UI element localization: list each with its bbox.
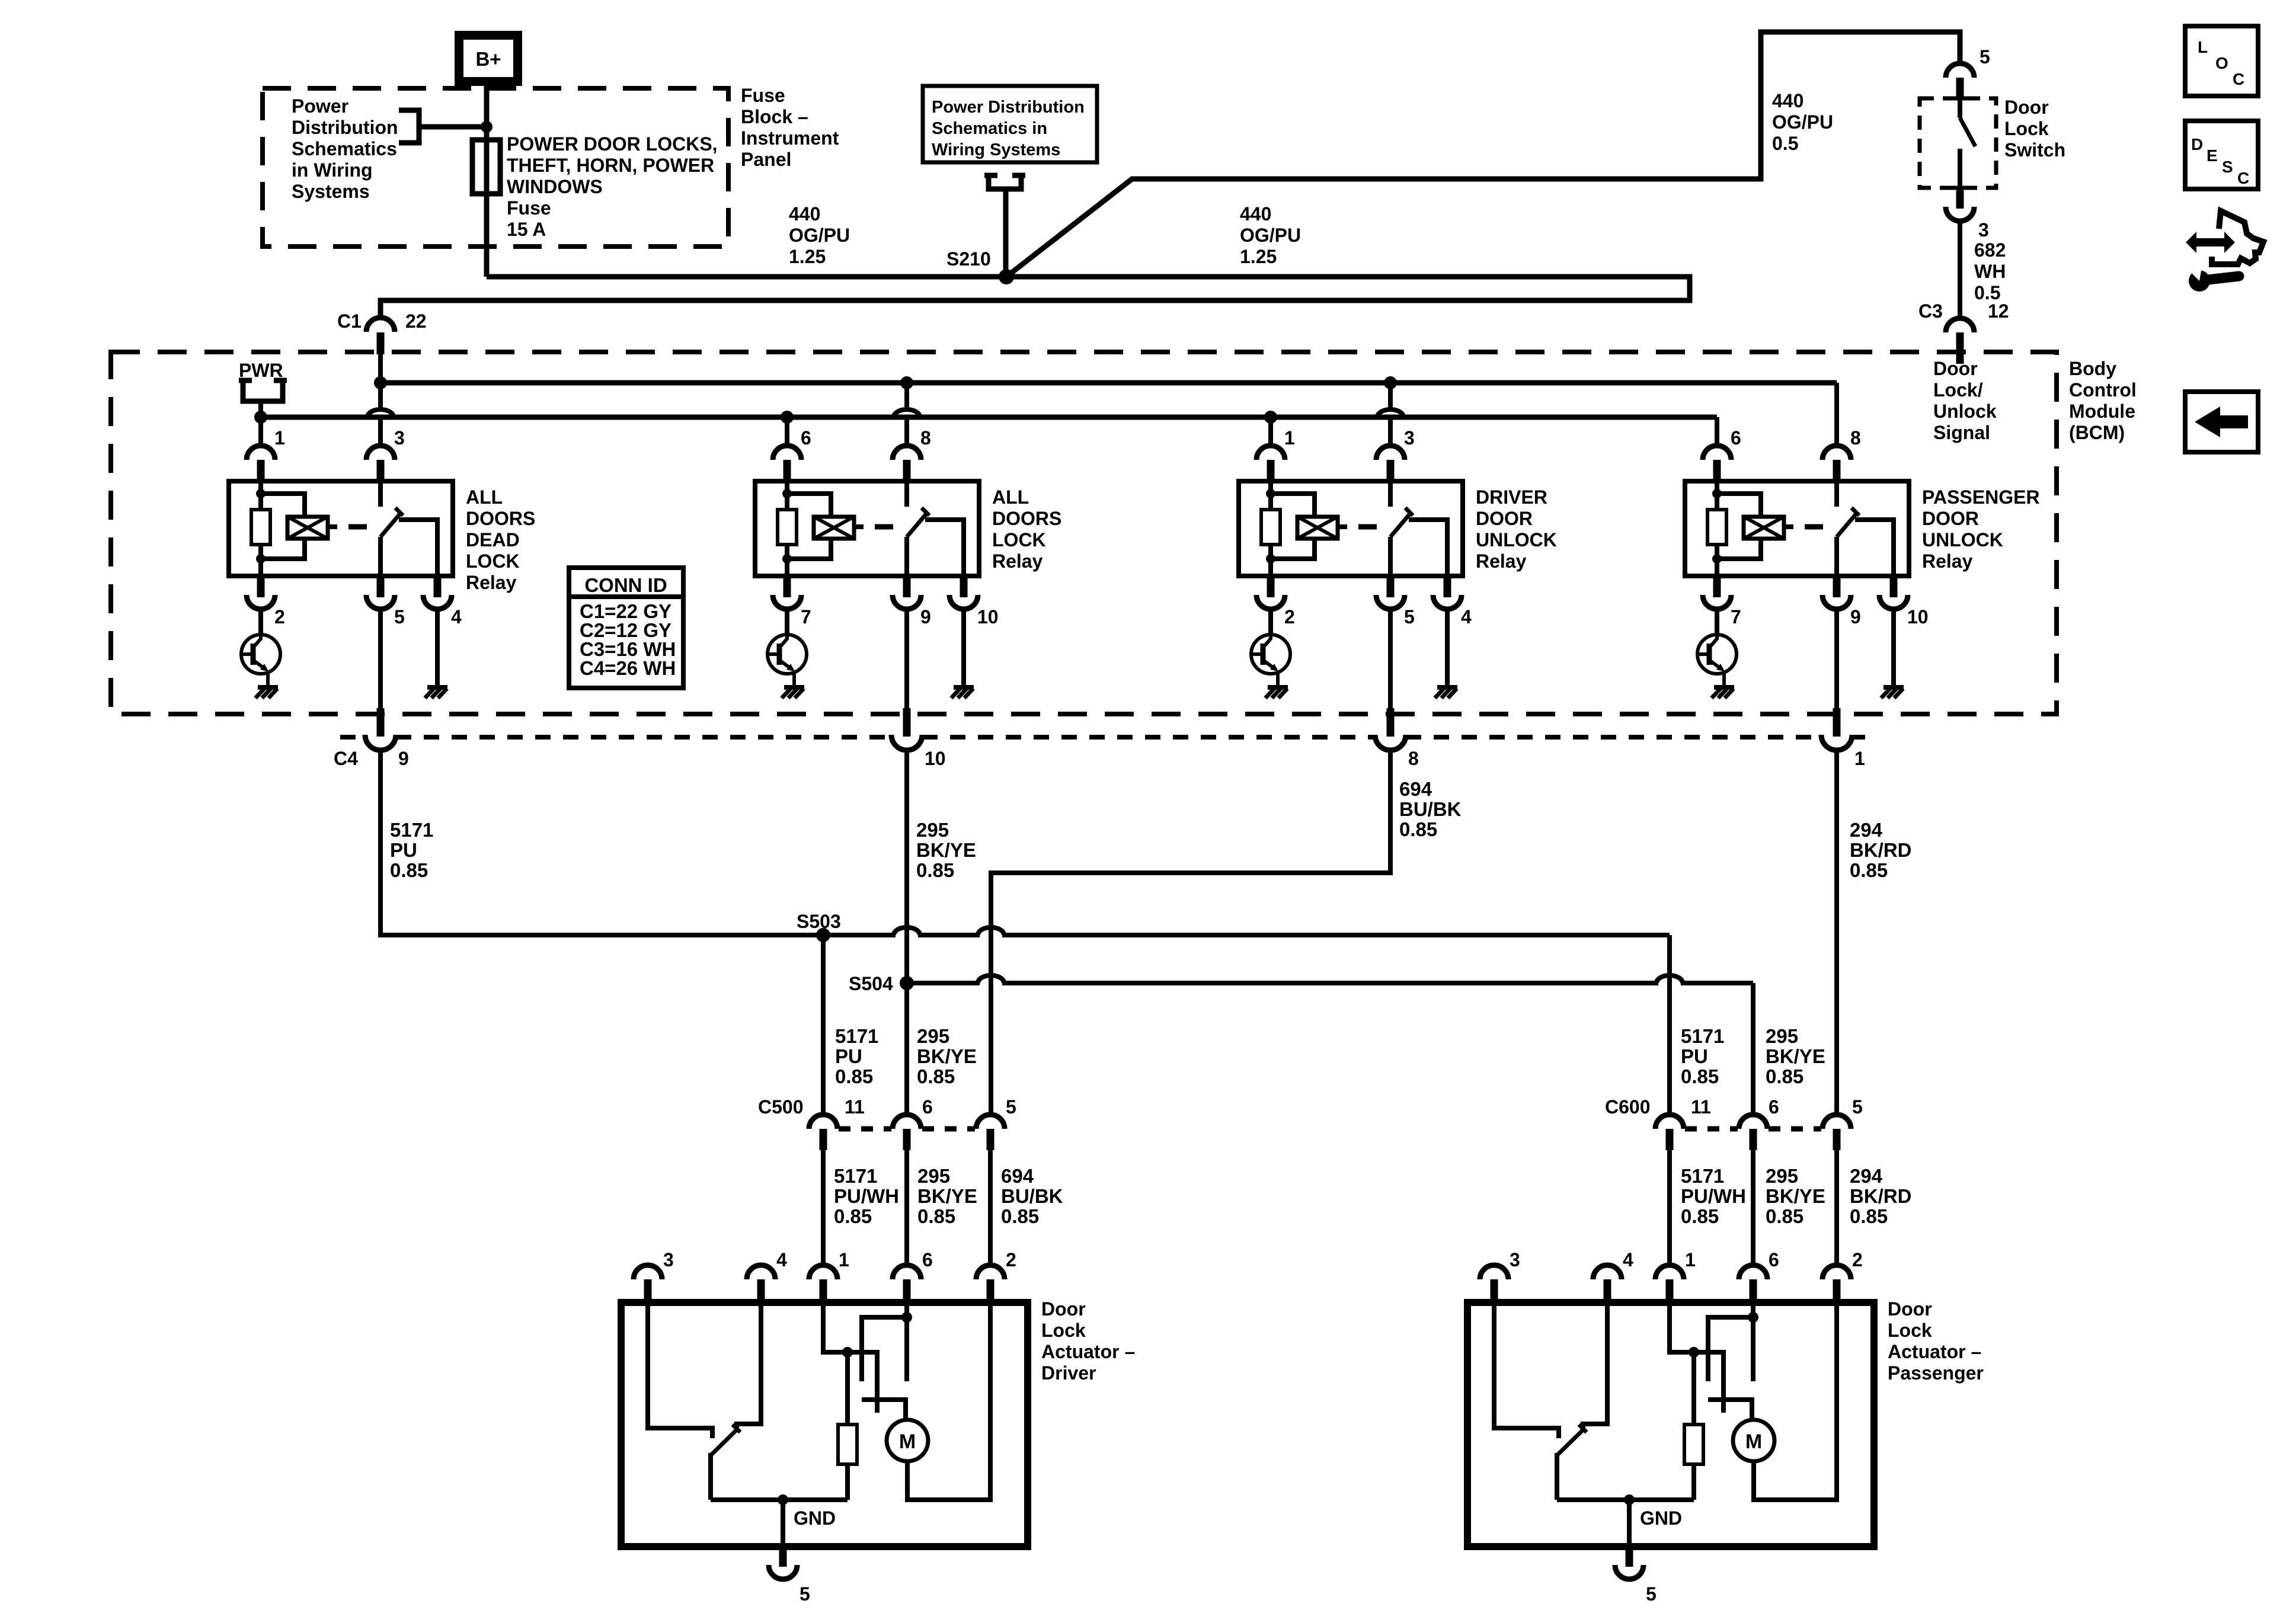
svg-text:Actuator –: Actuator –	[1041, 1341, 1135, 1362]
wire: bus2 to relay 3 coil pin 1	[1268, 417, 1273, 446]
label: wire 5171 PU 0.85 (to C600)	[1681, 1025, 1724, 1087]
label: wire 5171 PU 0.85 (to C500)	[835, 1025, 878, 1087]
C600 pin 11 label	[1691, 1096, 1711, 1118]
connector pin 5 label (door lock switch)	[1980, 46, 1990, 68]
svg-text:OG/PU: OG/PU	[789, 225, 850, 246]
driver actuator pin 4 wire to blade	[737, 1302, 761, 1429]
pin 8 label (relay 2)	[920, 427, 931, 449]
connector arc below switch	[1946, 207, 1974, 221]
svg-text:PASSENGER: PASSENGER	[1922, 486, 2040, 508]
C4 stub at pin 10	[903, 708, 911, 737]
wire: pin 10 to ground	[961, 609, 966, 686]
svg-text:1: 1	[839, 1249, 849, 1270]
svg-text:Door: Door	[1888, 1298, 1932, 1320]
junction dot on B+ wire	[481, 121, 493, 133]
driver actuator pin 3 connector arc	[634, 1265, 662, 1279]
svg-text:1: 1	[1284, 427, 1295, 449]
svg-text:C4=26 WH: C4=26 WH	[580, 657, 676, 679]
door lock switch S (dashed box)	[1920, 98, 1996, 188]
svg-text:Block –: Block –	[741, 106, 808, 127]
relay 4 switch contact	[1837, 481, 1894, 576]
label: Body Control Module (BCM)	[2069, 358, 2137, 443]
passenger actuator pin 6 wire	[1751, 1302, 1755, 1317]
C600 pin 6 stub	[1750, 1129, 1757, 1150]
pin 2 label	[274, 606, 285, 628]
svg-text:2: 2	[1284, 606, 1295, 628]
svg-text:10: 10	[977, 606, 999, 628]
svg-text:Wiring Systems: Wiring Systems	[932, 140, 1060, 159]
passenger actuator junction dot (pin 1)	[1689, 1347, 1699, 1358]
K1 all doors dead lock relay box	[229, 481, 453, 576]
svg-text:0.85: 0.85	[1399, 818, 1437, 840]
C4 pin 8 label	[1408, 748, 1419, 769]
relay 1 switch contact	[380, 481, 437, 576]
pin 9 stub (relay 4)	[1833, 576, 1841, 597]
PWR bracket symbol	[239, 380, 287, 417]
passenger actuator GND connector arc	[1615, 1565, 1643, 1579]
junction dot bus1 / relay 3	[1384, 376, 1397, 389]
wire: bus2 to relay 1 coil pin 1	[258, 417, 263, 446]
driver actuator pin 4 connector arc	[747, 1265, 775, 1279]
svg-text:3: 3	[663, 1249, 674, 1270]
passenger actuator pin 3 connector arc	[1480, 1265, 1508, 1279]
pin 7 stub (relay 4)	[1713, 576, 1721, 597]
svg-text:0.85: 0.85	[916, 859, 954, 881]
driver actuator pin 4 label	[776, 1249, 787, 1270]
junction dot bus2 / relay 3	[1264, 411, 1277, 424]
passenger actuator GND junction dot	[1624, 1494, 1635, 1505]
pin 4 label	[1461, 606, 1472, 628]
label: Door Lock Actuator - Passenger	[1888, 1298, 1984, 1384]
svg-text:Lock: Lock	[1041, 1320, 1086, 1341]
svg-text:9: 9	[1850, 606, 1861, 628]
pin 10 connector arc	[949, 595, 978, 609]
svg-text:C600: C600	[1605, 1096, 1651, 1118]
passenger actuator position switch blade	[1557, 1425, 1587, 1500]
label: wire 694 BU/BK 0.85 (driver)	[1001, 1165, 1063, 1227]
label: wire 295 BK/YE 0.85 (to C500)	[917, 1025, 977, 1087]
svg-text:Systems: Systems	[292, 181, 370, 202]
svg-text:LOCK: LOCK	[992, 529, 1046, 550]
pin 10 label	[977, 606, 999, 628]
svg-text:5171: 5171	[390, 819, 433, 841]
svg-text:12: 12	[1988, 300, 2009, 322]
svg-text:Passenger: Passenger	[1888, 1362, 1984, 1384]
svg-text:0.5: 0.5	[1772, 133, 1798, 154]
driver actuator ground rail	[711, 1497, 848, 1502]
relay 3 junction dots	[1266, 489, 1275, 564]
pin 2 label	[1284, 606, 1295, 628]
svg-text:OG/PU: OG/PU	[1772, 111, 1833, 133]
pin 8 label (relay 4)	[1850, 427, 1861, 449]
door lock switch blade	[1960, 100, 1975, 190]
svg-text:5171: 5171	[835, 1025, 878, 1047]
driver actuator junction dot (pin 1)	[842, 1347, 853, 1358]
pin 1 label (relay 1)	[274, 427, 285, 449]
pin 2 connector arc	[1256, 595, 1285, 609]
svg-text:8: 8	[1850, 427, 1861, 449]
wire 682 WH: switch to BCM C3	[1958, 221, 1962, 318]
svg-text:22: 22	[405, 311, 427, 332]
pin 6 connector arc	[773, 446, 801, 460]
wire: C1 to bus junction	[378, 354, 383, 383]
wire: bus2 to relay 2 coil pin 6	[785, 417, 789, 446]
icon: DESC box	[2185, 121, 2258, 189]
svg-text:C3: C3	[1918, 300, 1943, 322]
svg-text:295: 295	[917, 1165, 950, 1187]
passenger actuator pin 6 stub	[1750, 1279, 1757, 1302]
passenger actuator contact finger (pin 1)	[1694, 1352, 1723, 1413]
connector C600 label	[1605, 1096, 1651, 1118]
C4 pin 9 label	[398, 748, 409, 769]
driver actuator GND wire	[781, 1500, 785, 1547]
svg-text:5171: 5171	[1681, 1025, 1724, 1047]
wire: pin 9 to C4	[904, 609, 909, 708]
driver actuator wiper bar to motor	[862, 1400, 906, 1420]
svg-text:10: 10	[1907, 606, 1929, 628]
svg-text:4: 4	[1461, 606, 1472, 628]
passenger actuator pin 6 label	[1769, 1249, 1779, 1270]
svg-text:1: 1	[1854, 748, 1865, 769]
svg-text:Schematics in: Schematics in	[932, 119, 1047, 138]
svg-text:DEAD: DEAD	[466, 529, 520, 550]
pin 7 connector arc	[773, 595, 801, 609]
C4 stub at pin 1	[1833, 708, 1841, 737]
pin 6 stub	[784, 460, 791, 481]
svg-text:4: 4	[451, 606, 462, 628]
svg-text:6: 6	[1769, 1249, 1779, 1270]
pin 4 label	[451, 606, 462, 628]
wire: pin 2 to driver transistor	[1268, 609, 1273, 635]
driver actuator pin 1 wire	[823, 1302, 848, 1352]
svg-text:in Wiring: in Wiring	[292, 159, 373, 181]
svg-text:S504: S504	[849, 973, 893, 994]
svg-text:0.85: 0.85	[835, 1065, 873, 1087]
label: wire 694 BU/BK 0.85	[1399, 778, 1462, 840]
svg-text:6: 6	[922, 1249, 933, 1270]
label: wire 294 BK/RD 0.85 (passenger)	[1850, 1165, 1912, 1227]
svg-text:694: 694	[1001, 1165, 1034, 1187]
wire: pin 4 to ground	[435, 609, 440, 686]
transistor driver Q2	[768, 635, 807, 687]
connector C4 dotted interface line	[340, 735, 1865, 740]
wire: pin 7 to driver transistor	[1715, 609, 1719, 635]
connector C1 pin 22 arc	[366, 318, 395, 332]
C500 pin 6 stub	[903, 1129, 911, 1150]
icon: connector/wrench (diagnostic)	[2185, 211, 2263, 292]
driver actuator pin 3 label	[663, 1249, 674, 1270]
box: Power Distribution Schematics in Wiring Systems (S210 note)	[923, 86, 1097, 162]
reference bracket to fuse wire	[399, 110, 487, 143]
passenger actuator GND pin 5 label	[1646, 1583, 1657, 1605]
svg-text:5: 5	[1980, 46, 1990, 68]
junction dot bus1 / relay 2	[900, 376, 913, 389]
pin 5 stub (relay 3)	[1387, 576, 1395, 597]
svg-text:BU/BK: BU/BK	[1001, 1185, 1063, 1207]
label: Fuse Block - Instrument Panel	[741, 85, 839, 170]
pin 10 stub (relay 4)	[1890, 576, 1898, 597]
relay 4 coil (box with X)	[1744, 517, 1793, 539]
svg-text:GND: GND	[1640, 1507, 1682, 1529]
relay 3 resistor	[1261, 510, 1280, 545]
relay 3 actuation dash link	[1358, 524, 1377, 530]
ground (transistor Q1)	[255, 687, 278, 698]
pin 10 label	[1907, 606, 1929, 628]
svg-text:0.85: 0.85	[390, 859, 428, 881]
wire: bus2 end to relay 4 coil pin 6	[1715, 417, 1719, 446]
door lock actuator - passenger box	[1467, 1302, 1874, 1547]
driver actuator contact finger (pin 1)	[848, 1352, 877, 1413]
relay 1 junction dots	[256, 489, 266, 564]
svg-text:3: 3	[1510, 1249, 1520, 1270]
svg-text:0.85: 0.85	[1681, 1205, 1719, 1227]
pin 6 label (relay 2)	[801, 427, 811, 449]
junction dot bus1/C1	[374, 376, 387, 389]
driver actuator pin 6 connector arc	[893, 1265, 921, 1279]
wire: S503 down to C500-11	[821, 935, 826, 1115]
pin 3 connector arc	[366, 446, 395, 460]
driver actuator GND connector arc	[769, 1565, 797, 1579]
svg-text:6: 6	[922, 1096, 933, 1118]
label: pin 3 / wire 682 WH 0.5	[1974, 219, 2006, 303]
pin 3 label (relay 3)	[1404, 427, 1415, 449]
driver actuator pin 1 stub	[820, 1279, 827, 1302]
svg-text:0.85: 0.85	[1681, 1065, 1719, 1087]
wire: connector to actuator pin	[1751, 1150, 1755, 1265]
K2 all doors lock relay box	[755, 481, 979, 576]
svg-text:0.85: 0.85	[1001, 1205, 1039, 1227]
C3 stub into BCM	[1956, 332, 1964, 364]
svg-text:Instrument: Instrument	[741, 127, 839, 149]
svg-text:10: 10	[925, 748, 946, 769]
C4 pin 1 connector arc	[1821, 735, 1852, 750]
svg-text:Lock: Lock	[1888, 1320, 1932, 1341]
svg-text:8: 8	[1408, 748, 1419, 769]
relay 1 coil branch wires	[261, 481, 305, 576]
svg-text:295: 295	[917, 1025, 949, 1047]
pin 6 label (relay 4)	[1731, 427, 1741, 449]
label: wire 294 BK/RD 0.85 (upper)	[1850, 819, 1912, 881]
svg-text:Fuse: Fuse	[741, 85, 785, 106]
svg-text:Switch: Switch	[2004, 139, 2065, 161]
pin 9 connector arc	[1822, 595, 1851, 609]
C500 interface dashes	[839, 1126, 975, 1132]
C4 pin 1 label	[1854, 748, 1865, 769]
relay 1 name label	[466, 486, 535, 593]
svg-text:BK/YE: BK/YE	[1766, 1045, 1825, 1067]
pin 9 stub (relay 2)	[903, 576, 911, 597]
pin 5 stub (relay 1)	[377, 576, 385, 597]
svg-text:M: M	[1745, 1430, 1762, 1453]
svg-text:5: 5	[1646, 1583, 1657, 1605]
svg-text:9: 9	[920, 606, 931, 628]
label: wire 5171 PU 0.85 (upper)	[390, 819, 433, 881]
door lock switch bottom stub	[1956, 190, 1964, 209]
svg-text:Door: Door	[1933, 358, 1978, 379]
K3 driver door unlock relay box	[1239, 481, 1463, 576]
C600 interface dashes	[1685, 1126, 1821, 1132]
svg-text:UNLOCK: UNLOCK	[1476, 529, 1557, 550]
svg-text:Lock/: Lock/	[1933, 379, 1983, 401]
driver actuator motor M	[887, 1420, 928, 1461]
svg-text:O: O	[2215, 54, 2228, 72]
ground (relay 4 pin 10)	[1881, 687, 1904, 698]
svg-text:D: D	[2191, 135, 2203, 153]
driver actuator motor return to pin 2	[907, 1302, 990, 1500]
pin 10 stub (relay 2)	[960, 576, 968, 597]
dashed box: power distribution (fuse block detail)	[263, 88, 728, 247]
driver actuator pin 1 label	[839, 1249, 849, 1270]
driver actuator resistor feed	[845, 1352, 850, 1425]
svg-text:294: 294	[1850, 1165, 1883, 1187]
pin 6 connector arc	[1703, 446, 1731, 460]
svg-text:S210: S210	[946, 248, 991, 270]
svg-text:GND: GND	[794, 1507, 836, 1529]
passenger actuator resistor to ground rail	[1691, 1464, 1696, 1500]
icon: back-arrow box	[2185, 392, 2258, 452]
relay 4 coil branch wires	[1717, 481, 1761, 576]
pin 1 connector arc	[247, 446, 275, 460]
pin 2 stub (relay 3)	[1267, 576, 1275, 597]
internal bus 1 (lock signal)	[380, 383, 1837, 446]
pin 2 connector arc	[247, 595, 275, 609]
svg-text:Actuator –: Actuator –	[1888, 1341, 1981, 1362]
svg-text:295: 295	[916, 819, 949, 841]
svg-text:6: 6	[1731, 427, 1741, 449]
svg-text:Door: Door	[2004, 97, 2049, 118]
svg-text:PU/WH: PU/WH	[1681, 1185, 1746, 1207]
svg-text:Power Distribution: Power Distribution	[932, 98, 1085, 117]
svg-text:WINDOWS: WINDOWS	[507, 176, 603, 197]
driver actuator pin 3 stub	[644, 1279, 652, 1302]
label: wire 295 BK/YE 0.85 (upper)	[916, 819, 976, 881]
connector C500 label	[758, 1096, 804, 1118]
svg-text:WH: WH	[1974, 261, 2006, 282]
svg-text:0.85: 0.85	[917, 1205, 955, 1227]
driver actuator GND stub	[779, 1547, 787, 1567]
svg-text:5: 5	[1852, 1096, 1863, 1118]
wire: pin 10 to ground	[1891, 609, 1896, 686]
passenger actuator pin 3 wire to switch contact	[1494, 1302, 1559, 1438]
splice S503 dot	[816, 928, 830, 942]
passenger actuator contact fingers (pin 6)	[1708, 1317, 1753, 1381]
ground (transistor Q4)	[1712, 687, 1734, 698]
pin 7 connector arc	[1703, 595, 1731, 609]
splice S210 label	[946, 248, 991, 270]
relay 4 resistor	[1707, 510, 1726, 545]
CONN ID table	[569, 568, 683, 688]
pin 8 connector arc	[893, 446, 921, 460]
pin 5 label	[1404, 606, 1415, 628]
svg-text:BK/YE: BK/YE	[916, 839, 976, 861]
relay 4 junction dots	[1712, 489, 1722, 564]
svg-text:Driver: Driver	[1041, 1362, 1096, 1384]
label: POWER DOOR LOCKS, THEFT, HORN, POWER WINDOWS Fuse 15 A	[507, 133, 718, 240]
C500 pin 11 label	[845, 1096, 865, 1118]
C4 pin 9 connector arc	[365, 735, 396, 750]
svg-text:S503: S503	[797, 911, 841, 932]
svg-text:DOOR: DOOR	[1476, 508, 1533, 529]
svg-text:Panel: Panel	[741, 149, 791, 170]
svg-text:11: 11	[845, 1096, 865, 1118]
svg-text:CONN ID: CONN ID	[584, 574, 667, 596]
splice S504 dot	[900, 976, 914, 990]
connector C1 label	[337, 311, 427, 332]
svg-text:3: 3	[1404, 427, 1415, 449]
internal bus 2 (PWR feed)	[261, 417, 1717, 446]
svg-text:BK/YE: BK/YE	[917, 1045, 977, 1067]
svg-text:C500: C500	[758, 1096, 804, 1118]
relay 2 coil (box with X)	[814, 517, 864, 539]
wire: pin 5 to C4	[378, 609, 383, 708]
svg-text:1: 1	[274, 427, 285, 449]
relay 4 actuation dash link	[1805, 524, 1823, 530]
svg-text:0.85: 0.85	[1850, 859, 1888, 881]
svg-text:6: 6	[1769, 1096, 1779, 1118]
junction dot bus2/PWR	[254, 411, 267, 424]
junction dot bus2 / relay 2	[781, 411, 794, 424]
wire: pin 9 to C4	[1834, 609, 1839, 708]
relay 3 name label	[1476, 486, 1557, 572]
power symbol B+	[455, 31, 522, 86]
svg-text:C: C	[2237, 169, 2249, 187]
passenger actuator GND stub	[1626, 1547, 1633, 1567]
label: wire 295 BK/YE 0.85 (to C600)	[1766, 1025, 1825, 1087]
svg-text:UNLOCK: UNLOCK	[1922, 529, 2003, 550]
passenger actuator pin 4 label	[1623, 1249, 1633, 1270]
driver actuator pin 6 wire	[904, 1302, 909, 1317]
wire: S504 branch right to C600-6 (hops 694 and S503 drop)	[907, 975, 1753, 1115]
wire: connector to actuator pin	[1667, 1150, 1672, 1265]
ground (relay 3 pin 4)	[1435, 687, 1457, 698]
passenger actuator pin 1 stub	[1666, 1279, 1674, 1302]
svg-text:THEFT, HORN, POWER: THEFT, HORN, POWER	[507, 155, 714, 176]
bracket below S210 note box	[984, 175, 1025, 274]
C500 pin 11 stub	[820, 1129, 827, 1150]
C1 stub into BCM	[377, 332, 385, 354]
label: Door Lock/Unlock Signal	[1933, 358, 1997, 443]
svg-text:0.85: 0.85	[1766, 1065, 1803, 1087]
C500 pin 11 connector arc	[809, 1115, 837, 1129]
svg-text:8: 8	[920, 427, 931, 449]
passenger actuator pin 4 wire to blade	[1583, 1302, 1607, 1429]
svg-text:682: 682	[1974, 239, 2006, 261]
label: wire 440 OG/PU 0.5	[1772, 90, 1833, 154]
wire: connector to actuator pin	[904, 1150, 909, 1265]
label: wire 295 BK/YE 0.85 (driver)	[917, 1165, 977, 1227]
wire: bus1 to relay 2 switch pin 8 (hop over bus2)	[894, 383, 920, 446]
label: wire 295 BK/YE 0.85 (passenger)	[1766, 1165, 1825, 1227]
svg-text:(BCM): (BCM)	[2069, 422, 2125, 443]
svg-text:LOCK: LOCK	[466, 550, 520, 572]
svg-text:Relay: Relay	[992, 550, 1043, 572]
wire 694 BU/BK: C4-8 left and down to C500-5	[991, 749, 1390, 1115]
passenger actuator pin 6 connector arc	[1739, 1265, 1767, 1279]
pin 3 connector arc	[1376, 446, 1405, 460]
svg-text:POWER DOOR LOCKS,: POWER DOOR LOCKS,	[507, 133, 718, 155]
pin 3 label (relay 1)	[394, 427, 405, 449]
svg-text:DOORS: DOORS	[466, 508, 535, 529]
driver actuator junction dot (pin 6)	[901, 1312, 912, 1323]
ground (transistor Q3)	[1265, 687, 1288, 698]
driver actuator pin 2 connector arc	[976, 1265, 1005, 1279]
svg-text:11: 11	[1691, 1096, 1711, 1118]
svg-text:M: M	[899, 1430, 916, 1453]
svg-text:295: 295	[1766, 1165, 1798, 1187]
C600 pin 11 stub	[1666, 1129, 1674, 1150]
connector pin 5 arc (door lock switch)	[1946, 63, 1974, 78]
pin 1 stub	[257, 460, 265, 481]
